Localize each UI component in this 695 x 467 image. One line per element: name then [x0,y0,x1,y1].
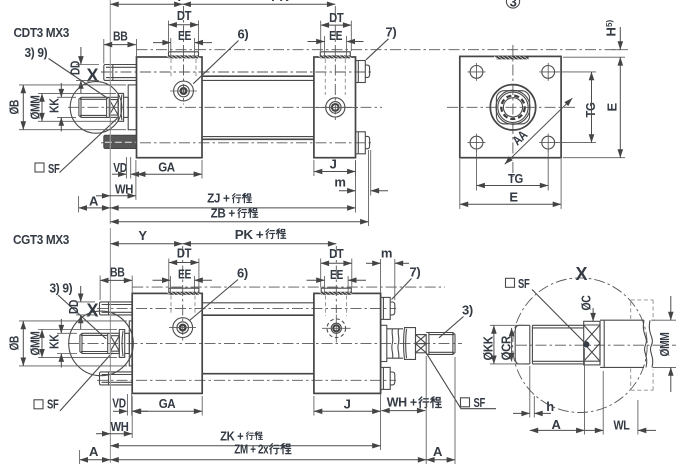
thread run-out [530,325,533,364]
port cross front [170,90,197,92]
label SF square top [35,163,44,172]
svg-text:WL: WL [614,418,630,433]
svg-text:X: X [86,66,98,86]
tie rod hole TR [542,66,555,79]
cylinder break curves [643,320,646,367]
main centerline bottom [68,342,462,344]
svg-text:E: E [605,103,620,112]
front port boss [169,52,199,57]
leader 3)9) bottom [58,295,106,339]
svg-text:J: J [344,397,351,412]
svg-text:VD: VD [113,160,127,175]
front head block [137,57,203,158]
piston rod thread KK [79,97,109,117]
front port boss bottom [169,288,199,293]
label SF square bottom-left [34,400,43,409]
svg-text:ØMM: ØMM [657,333,672,357]
svg-text:H: H [604,28,619,37]
svg-text:CDT3 MX3: CDT3 MX3 [14,25,70,40]
svg-text:E: E [509,190,518,205]
front tie rod top [104,65,137,81]
svg-text:DT: DT [177,8,192,23]
svg-text:3): 3) [462,303,473,318]
svg-text:BB: BB [113,28,128,43]
rod collar [118,93,123,121]
svg-text:A: A [552,417,562,432]
rear rod thread [426,333,455,355]
port face hatch [169,292,199,295]
detail centerline [516,344,676,346]
svg-text:SF: SF [474,395,486,410]
port face hatch rear [320,55,350,58]
leader SF detail [532,290,586,344]
leader SF top [60,118,118,172]
svg-text:WH: WH [111,419,129,434]
svg-text:WH: WH [115,181,133,196]
svg-text:ZM + 2x: ZM + 2x [234,441,269,456]
hidden port bore front [171,59,196,78]
svg-text:SF: SF [47,397,59,412]
port face hatch rear bottom [321,292,351,295]
wrench flat square detail (two X) [584,321,600,365]
tie rod hole TL [470,66,483,79]
cylinder tube bottom [202,315,314,374]
svg-text:SF: SF [518,276,530,291]
svg-text:Y: Y [138,228,147,243]
svg-text:ØB: ØB [7,336,22,351]
horizontal centerline [447,106,576,108]
svg-text:X: X [86,301,98,321]
rod thread detail [532,325,583,364]
hidden flats width (dashed) top [631,300,653,319]
front rod boss OB [128,85,136,130]
tie rod centerline bottom [97,379,396,381]
svg-text:ØMM: ØMM [28,96,43,120]
flange square [460,56,561,157]
reference line (long) bottom [109,228,111,463]
svg-text:7): 7) [386,25,397,40]
front head block bottom [132,293,202,393]
svg-text:ZJ +: ZJ + [207,191,230,206]
rear head block bottom [314,293,381,393]
front tie rod bottom (dark) [104,135,137,148]
svg-text:DD: DD [68,61,83,75]
leader 3)9) [49,59,109,99]
dimension AA (diagonal) [505,98,573,164]
svg-text:DT: DT [329,246,344,261]
svg-text:CGT3 MX3: CGT3 MX3 [13,232,69,247]
svg-text:DT: DT [329,10,344,25]
rear port boss bottom [321,288,351,293]
port cross rear [334,6,336,121]
svg-text:SF: SF [48,161,60,176]
rear tie rod nut top (CGT3) [381,297,391,319]
hidden rod continuation [651,320,659,367]
rod tip dome [515,325,530,364]
rear tie rod nut bottom [356,132,366,154]
svg-text:EE: EE [178,28,192,43]
svg-text:ØKK: ØKK [481,336,496,361]
svg-text:m: m [334,175,345,190]
envelope line H [137,49,621,51]
svg-text:BB: BB [110,264,125,279]
front rod boss bottom [129,321,132,366]
front tie rod top (CGT3) [100,302,133,315]
svg-text:TG: TG [508,171,523,186]
detail circle X boundary [70,82,122,134]
svg-text:A: A [89,444,99,459]
hidden flats width (dashed) bottom [631,369,653,391]
dimension PK + stroke (cut off) [183,3,336,5]
leader SF bottom-right [426,353,496,409]
svg-text:ZB +: ZB + [211,206,236,221]
leader 7) top [366,39,389,60]
main centerline [68,106,382,108]
svg-text:Y: Y [175,0,184,4]
vertical centerline [512,45,514,177]
label SF square bottom-right [461,398,470,407]
detail boundary circle [513,278,648,413]
svg-text:WH +: WH + [387,394,418,409]
svg-text:A: A [433,444,443,459]
svg-text:PK +: PK + [235,227,264,242]
tie rod hole BR [542,136,555,149]
svg-text:VD: VD [112,396,126,411]
svg-text:EE: EE [330,267,344,282]
svg-text:ØC: ØC [579,295,594,311]
leader 6) top [193,41,238,84]
svg-text:ØMM: ØMM [28,332,43,356]
svg-text:EE: EE [178,267,192,282]
svg-text:3: 3 [510,0,517,9]
svg-text:KK: KK [47,334,62,349]
label SF square detail [506,278,515,287]
tie rod centerline bottom [101,142,371,144]
envelope line bottom [132,286,445,288]
front tie rod bottom (CGT3) [100,372,133,385]
rod segment left [125,333,130,353]
svg-text:GA: GA [159,396,176,411]
tie rod hole BL [470,136,483,149]
tie rod centerline top [97,307,396,309]
center dot [583,341,589,347]
port face hatch (top edge) [497,56,529,59]
port 6) bottom front [173,318,193,338]
rod segment to head [124,97,129,117]
leader 3) right [439,317,464,338]
rod collar left [119,330,124,358]
svg-text:h: h [546,399,554,414]
svg-text:EE: EE [329,28,343,43]
tie rod centerline top [101,71,371,73]
OMM cylinder [600,320,604,367]
svg-text:GA: GA [158,160,175,175]
rear port boss [320,52,350,57]
reference line (long) [109,0,111,224]
svg-text:J: J [330,157,337,172]
detail circle X boundary bottom [69,311,134,376]
svg-text:6): 6) [237,266,248,281]
svg-text:m: m [381,246,392,261]
rod wrench-flat square SF [109,97,118,117]
svg-text:3) 9): 3) 9) [25,45,48,60]
rear rod boss [381,325,387,361]
leader 7) bottom [392,279,412,300]
hidden port bore rear [325,59,345,95]
hidden port bore rear bottom [325,296,346,317]
port face hatch front [169,55,199,58]
svg-text:TG: TG [583,102,598,117]
cylinder tube [202,76,314,139]
rod wrench-flat square left [110,333,119,353]
svg-text:6): 6) [238,27,249,42]
hidden port bore [171,296,195,315]
circled number 3 [506,0,519,8]
leader 6) bottom [190,280,239,321]
port rear bottom (hidden, dashed) [327,319,346,338]
svg-text:3) 9): 3) 9) [50,280,73,295]
svg-text:ØB: ØB [7,100,22,115]
rear tie rod nut bottom (CGT3) [381,367,391,389]
dimension Y (cut off at top) [110,3,182,5]
svg-text:7): 7) [410,265,421,280]
port 6) front: circles [174,81,194,101]
piston rod thread KK bottom-left [80,333,111,353]
svg-text:5): 5) [605,20,614,27]
rear rod collar [404,328,416,360]
rear head block [314,57,356,158]
leader SF bottom-left [60,353,112,411]
rear wrench-flat square (two X) [416,335,427,353]
svg-text:PK +: PK + [271,0,299,4]
port rear: circles [326,98,345,117]
svg-text:DT: DT [177,245,192,260]
rod with break (stroke) [387,329,403,358]
svg-text:X: X [575,264,587,284]
rear tie rod nut top [356,61,366,83]
center bore circles [490,85,535,130]
svg-text:KK: KK [47,98,62,113]
